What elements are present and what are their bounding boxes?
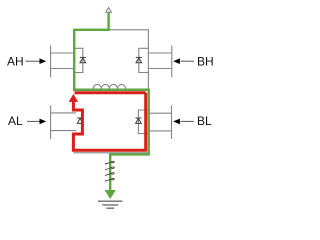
red highlighted path: mid rail [75,91,146,94]
diode glyph of AH [80,57,86,62]
svg-text:AL: AL [8,114,23,128]
diode glyph of AL [77,118,83,123]
svg-text:BH: BH [197,54,214,68]
transistor AH body (gate bar, channel stubs) [51,46,75,78]
gate wire + arrow BL [173,119,194,125]
transistor BL body (gate bar, channel stubs) [148,105,171,139]
inductor L (motor winding, 4 bumps) [93,84,125,88]
wire: bottom ground rail [73,152,148,154]
wire: BH drain leg [147,30,149,90]
transistor BH body (gate bar, channel stubs) [148,46,171,78]
ground symbol [98,201,122,208]
gate wire + arrow BH [173,58,194,64]
svg-text:AH: AH [7,54,24,68]
transistor AL body (gate bar, channel stubs) [51,105,76,139]
resistor R-sense squiggle [105,161,114,181]
gate wire + arrow AH [26,58,47,64]
wire: phase node rail and AH/BL legs [74,30,148,153]
diode glyph of BH [136,57,142,62]
transistor AH body-diode branch [74,48,83,72]
red highlighted loop: right side, bottom, AL body diode [73,93,145,151]
green highlighted path: supply > AH > inductor rail > BL > sense [74,13,149,191]
transistor BH body-diode branch [139,48,149,72]
wire: top supply rail [109,29,149,31]
power supply symbol (VM) [106,8,112,13]
diode glyph of BL [136,118,142,123]
red current arrow (up, out of AL diode) [69,94,78,102]
gate wire + arrow AL [27,119,46,125]
green current arrow (down, into ground) [105,190,116,199]
transistor BL body-diode branch [138,110,148,134]
svg-text:BL: BL [197,114,212,128]
